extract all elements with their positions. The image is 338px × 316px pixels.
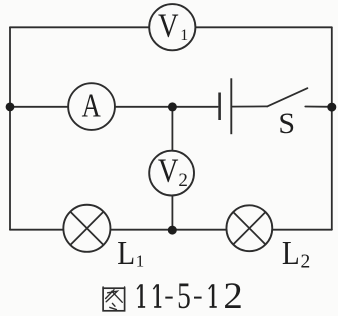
svg-text:L: L [282,234,300,272]
svg-text:A: A [82,86,101,124]
voltmeter V1 [149,4,195,50]
svg-text:2: 2 [223,276,242,316]
svg-text:1: 1 [136,252,145,271]
wire left edge [9,27,11,229]
wire switch to right node [305,106,332,108]
svg-text:V: V [158,7,179,45]
node: right junction [327,103,336,112]
digit 1 (second) [153,284,161,308]
voltmeter V2 [149,151,194,196]
ammeter A [68,83,115,130]
wire bottom-left segment [10,229,63,231]
svg-text:2: 2 [178,170,188,191]
wire right edge bottom [331,107,333,230]
hyphen (second) [194,297,202,299]
hyphen (first) [165,297,172,299]
svg-text:L: L [117,234,135,272]
lamp L1 [63,205,110,252]
lamp L2 [226,205,272,251]
caption text 11-5-12 [137,276,243,316]
caption character 图 (drawn) [103,287,125,311]
svg-text:1: 1 [180,27,188,44]
svg-text:5: 5 [177,276,191,316]
svg-text:2: 2 [301,251,311,272]
node: middle junction [168,102,177,111]
wire bottom-right segment [273,229,332,231]
node: left junction [6,103,15,112]
switch S [267,88,307,106]
digit 1 (first) [137,284,145,308]
wire top-left segment [10,26,148,28]
wire bottom-middle segment [111,229,225,231]
wire middle row: left node to ammeter [10,106,67,108]
wire V2 branch lower [171,197,173,230]
wire middle row: ammeter to battery [116,106,218,108]
digit 1 (third) [209,284,217,308]
wire right edge top [331,27,333,107]
svg-text:V: V [158,152,179,190]
svg-text:S: S [278,107,295,140]
node: bottom junction [168,226,177,235]
wire top-right segment [196,26,332,28]
wire middle row: battery to switch [232,105,267,107]
wire V2 branch upper [171,107,173,150]
battery cell [220,78,232,134]
